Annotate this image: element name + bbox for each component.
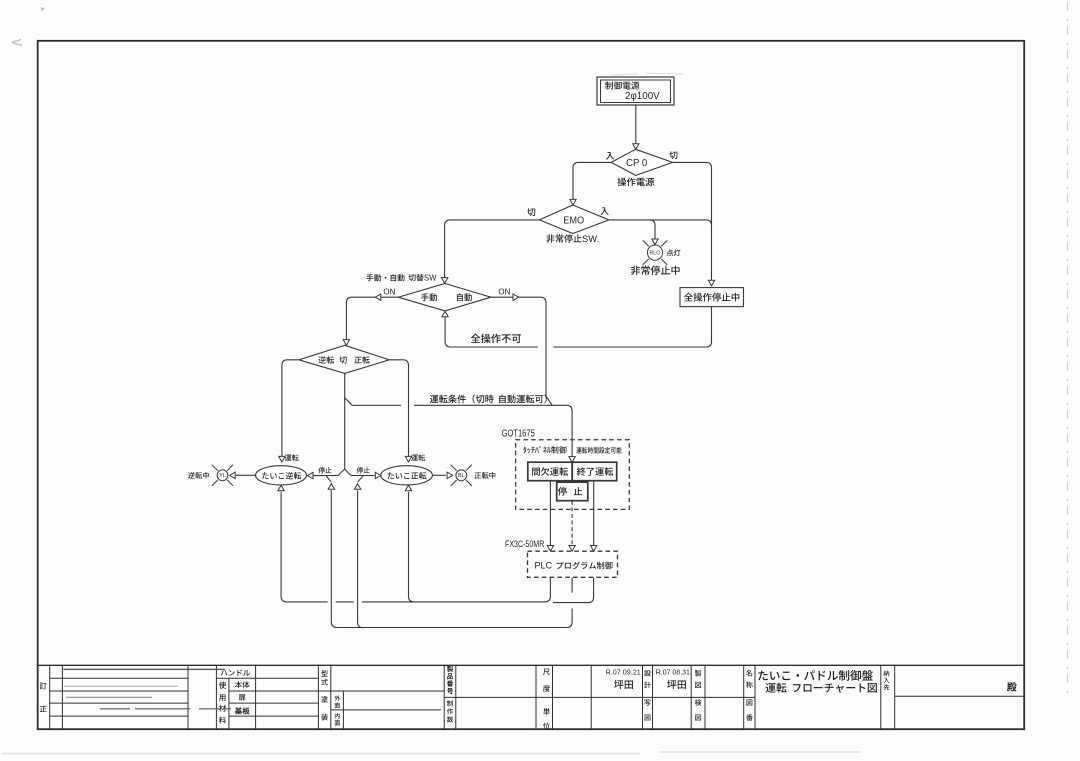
label 名称 vertical xyxy=(746,670,753,688)
indicator lamp YL xyxy=(212,465,233,486)
label 本体 xyxy=(235,681,250,688)
title block horizontal lines xyxy=(38,665,1024,716)
svg-text:YL: YL xyxy=(219,473,226,479)
wire branch 運転条件 diagonal xyxy=(345,398,353,406)
label 運転 left xyxy=(285,454,299,461)
label 写図 vertical xyxy=(644,700,650,721)
label 殿 xyxy=(1007,682,1017,691)
label 製図 vertical xyxy=(695,670,702,688)
wire CP0 入 branch to EMO xyxy=(570,162,611,205)
scan mark left edge xyxy=(12,40,23,46)
wire left riser from bus B xyxy=(331,490,337,627)
svg-text:SW: SW xyxy=(424,274,437,283)
decision diamond 手動自動 xyxy=(398,284,491,311)
wire 切 branch down with lambda split xyxy=(338,373,351,475)
label 坪田 second xyxy=(667,680,686,689)
wire branch down to RLO lamp xyxy=(650,220,659,245)
label 扉 xyxy=(239,694,246,701)
label 逆転中 xyxy=(188,472,209,479)
svg-text:SW.: SW. xyxy=(582,233,599,244)
wire riser bus A to たいこ逆転 bottom xyxy=(281,492,287,602)
svg-text:ON: ON xyxy=(498,288,510,297)
label 非常停止中 xyxy=(631,266,680,275)
title text 運転 フローチャート図 xyxy=(766,683,877,693)
wire 手動 branch left and down to 逆転切正転 diamond xyxy=(343,294,398,345)
ellipse たいこ逆転 xyxy=(256,466,307,485)
label 正 xyxy=(40,706,47,712)
wire left riser diagonal join xyxy=(326,476,331,482)
label タッチパネル制御 xyxy=(523,446,566,453)
label 基板 xyxy=(235,707,250,714)
label ON left xyxy=(383,288,395,297)
label ハンドル xyxy=(221,670,250,676)
wire right riser diagonal join xyxy=(358,476,363,482)
arrow left riser xyxy=(328,484,334,490)
arrow into たいこ逆転 bottom xyxy=(278,485,284,491)
label 内面 xyxy=(335,713,340,726)
svg-text:RLO: RLO xyxy=(649,250,660,256)
scan streak bottom xyxy=(2,752,860,754)
label 設計 vertical xyxy=(644,670,651,688)
svg-text:R.07 09.21: R.07 09.21 xyxy=(606,667,641,676)
label 運転条件（切時 自動運転可） xyxy=(430,395,547,404)
dashed box GOT touch panel xyxy=(516,440,630,510)
wire stop line right with arrow into たいこ正転 xyxy=(351,472,381,478)
wire 運転条件 bus segment left xyxy=(352,404,401,406)
label 単位 vertical xyxy=(543,708,550,729)
label GOT1675 xyxy=(502,429,536,440)
label 切 right of CP0 xyxy=(669,151,677,159)
label 訂 xyxy=(40,683,47,690)
wire PLC out3 to bus A xyxy=(553,578,594,603)
label 図番 vertical xyxy=(746,700,753,721)
label 外面 xyxy=(334,695,340,708)
label 入 left of CP0 xyxy=(606,152,614,160)
indicator lamp BL xyxy=(451,465,472,486)
label 尺度 vertical xyxy=(543,669,550,692)
decision diamond CP0 xyxy=(611,149,672,175)
wire 全操作停止中 down to 全操作不可 line right part xyxy=(554,307,712,347)
label 製品番号 vertical xyxy=(447,666,453,694)
svg-text:FX3C-50MR: FX3C-50MR xyxy=(505,539,545,549)
title block vertical lines xyxy=(50,665,895,729)
decision diamond EMO xyxy=(539,205,609,234)
label 坪田 first xyxy=(614,680,633,689)
wire right riser from bus B xyxy=(358,490,364,627)
label 全操作不可 xyxy=(471,334,521,344)
label 切 left of EMO xyxy=(527,208,535,216)
process box 全操作停止中 xyxy=(680,288,744,307)
svg-text:R.07 08.31: R.07 08.31 xyxy=(656,669,690,676)
label 停止 left xyxy=(318,467,331,473)
button box 間欠運転 xyxy=(528,462,572,481)
label 正転中 xyxy=(474,472,495,479)
label 塗装 vertical xyxy=(321,696,328,721)
dashed box PLC プログラム制御 xyxy=(528,551,618,577)
label date R.07 08.31 xyxy=(656,669,690,676)
wire EMO 切 branch to 切替SW diamond xyxy=(442,220,540,283)
label 使用材料 vertical xyxy=(219,682,226,724)
svg-text:BL: BL xyxy=(458,473,465,479)
wire たいこ正転 to BL lamp xyxy=(432,472,452,478)
wire 正転 branch down to たいこ正転 xyxy=(389,360,411,462)
decision diamond 逆転 切 正転 xyxy=(299,345,390,373)
label 手動・自動 切替SW xyxy=(366,274,437,283)
indicator lamp RLO xyxy=(643,240,667,264)
wire 逆転 branch down to たいこ逆転 xyxy=(279,360,299,462)
label 制作数 vertical xyxy=(447,700,453,722)
label 停止 right xyxy=(357,467,370,473)
scan smudge top center xyxy=(612,73,683,75)
wire EMO 入 branch right xyxy=(609,220,712,226)
wire 停止 to PLC dashed xyxy=(569,501,575,551)
wire CP0 切 branch right and down xyxy=(673,162,715,285)
label 入 right of EMO xyxy=(600,207,608,215)
svg-text:EMO: EMO xyxy=(563,215,584,226)
label 納入先 vertical xyxy=(884,670,890,690)
wire bus A segments xyxy=(287,578,551,602)
svg-text:PLC: PLC xyxy=(535,561,553,571)
label 検図 vertical xyxy=(695,699,702,720)
label 運転 right xyxy=(411,454,425,461)
ellipse たいこ正転 xyxy=(381,466,433,485)
label 非常停止SW below EMO xyxy=(546,233,599,244)
svg-text:CP 0: CP 0 xyxy=(626,158,648,169)
label FX3C-50MR xyxy=(505,539,545,549)
wire riser bus A to たいこ正転 bottom xyxy=(409,492,415,602)
wire 間欠運転 to PLC xyxy=(547,481,553,551)
wire 全操作不可 line left part to 切替SW bottom xyxy=(442,311,538,347)
faint handwriting smudge rows xyxy=(64,669,232,708)
label 型式 vertical xyxy=(321,670,328,685)
svg-text:GOT1675: GOT1675 xyxy=(502,429,536,440)
wire bus B xyxy=(337,578,572,628)
scan streak right edge xyxy=(1067,3,1069,698)
wire 運転条件 bus segment right down to GOT boxes xyxy=(414,405,575,462)
label date R.07 09.21 xyxy=(606,667,641,676)
wire 自動 branch right and down joining 運転条件 bus xyxy=(491,294,552,405)
label 操作電源 below CP0 xyxy=(617,178,654,187)
terminal box 制御電源 2φ100V xyxy=(597,77,674,105)
wire たいこ逆転 to YL lamp xyxy=(230,472,256,478)
title text たいこ・パドル制御盤 xyxy=(758,670,872,681)
label ON right xyxy=(498,288,510,297)
svg-text:ON: ON xyxy=(383,288,395,297)
scan speck top-left xyxy=(41,7,46,11)
svg-text:2φ100V: 2φ100V xyxy=(625,91,660,102)
label 点灯 xyxy=(667,249,681,256)
label 運転時間設定可能 xyxy=(576,447,621,453)
arrow into たいこ正転 bottom xyxy=(405,485,411,491)
arrow right riser xyxy=(354,484,360,490)
wire power box to CP0 xyxy=(633,105,639,149)
wire 終了運転 to PLC xyxy=(591,481,597,551)
button box 停止 xyxy=(557,482,588,501)
button box 終了運転 xyxy=(572,462,617,481)
wire stop line left with arrow into たいこ逆転 xyxy=(307,472,338,478)
